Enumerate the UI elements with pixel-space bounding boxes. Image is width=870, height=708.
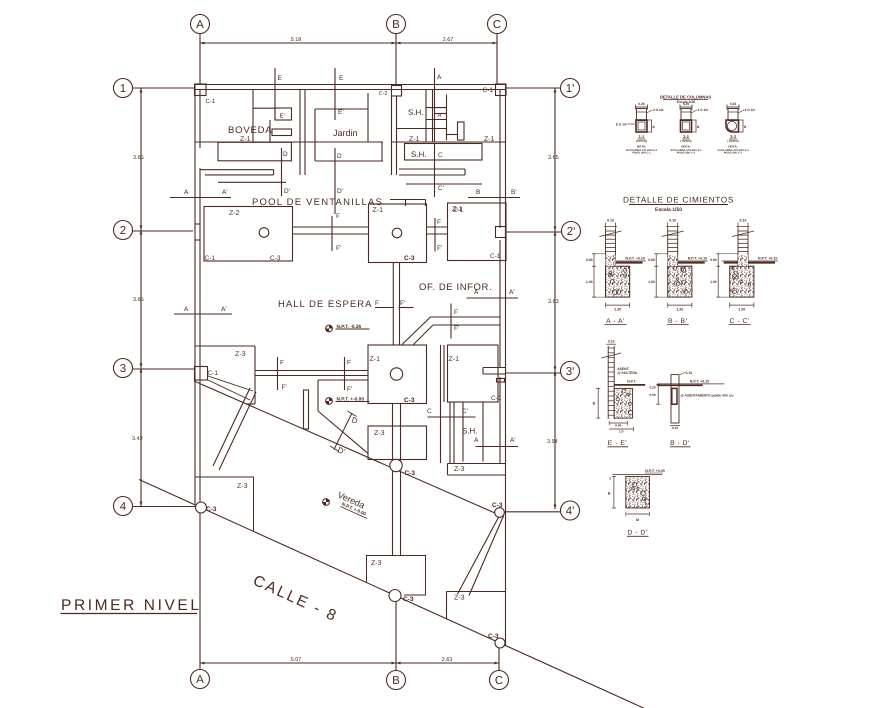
svg-text:F': F'	[282, 384, 287, 391]
svg-text:B: B	[593, 402, 596, 406]
svg-text:M: M	[636, 518, 639, 522]
svg-text:Z-1: Z-1	[409, 136, 420, 143]
svg-text:C-3: C-3	[403, 596, 414, 603]
svg-text:DETALLE DE COLUMNAS: DETALLE DE COLUMNAS	[660, 95, 712, 100]
svg-text:(TIPICO): (TIPICO)	[727, 139, 738, 143]
svg-text:@ SOLTERA: @ SOLTERA	[617, 371, 638, 375]
svg-text:C-3: C-3	[492, 502, 503, 509]
svg-text:D: D	[283, 151, 288, 158]
svg-text:A - A': A - A'	[606, 318, 625, 325]
svg-text:E: E	[339, 75, 344, 82]
svg-text:4': 4'	[566, 506, 575, 518]
svg-text:A': A'	[438, 112, 443, 119]
svg-text:C: C	[427, 408, 432, 415]
svg-text:N.P.T. +0.00: N.P.T. +0.00	[645, 469, 664, 473]
svg-text:Escala 1/50: Escala 1/50	[655, 207, 682, 213]
svg-text:C-1: C-1	[490, 253, 501, 260]
svg-text:B - B': B - B'	[668, 318, 687, 325]
svg-text:F': F'	[347, 386, 352, 393]
svg-text:2.67: 2.67	[443, 37, 454, 43]
svg-text:Z-3: Z-3	[374, 430, 385, 437]
svg-text:C-1: C-1	[491, 395, 502, 402]
svg-text:A: A	[184, 306, 189, 313]
svg-text:0.25: 0.25	[638, 102, 644, 106]
svg-text:C: C	[493, 19, 501, 31]
svg-text:F: F	[437, 219, 441, 226]
svg-text:S.H.: S.H.	[411, 150, 427, 159]
svg-text:A: A	[196, 674, 204, 686]
svg-text:3.42: 3.42	[132, 436, 143, 442]
svg-text:2: 2	[609, 477, 611, 481]
svg-text:0.15: 0.15	[686, 371, 693, 375]
svg-text:C-2: C-2	[379, 91, 388, 97]
svg-text:0.15: 0.15	[672, 426, 678, 430]
svg-text:1.00: 1.00	[586, 280, 593, 284]
svg-text:2': 2'	[567, 226, 576, 238]
svg-text:Z-1: Z-1	[484, 136, 495, 143]
svg-text:E': E'	[280, 113, 285, 120]
svg-text:@ ASENTAMIENTO pulido 400 c/u: @ ASENTAMIENTO pulido 400 c/u	[681, 394, 734, 398]
svg-text:A': A'	[221, 306, 227, 313]
svg-text:3.54: 3.54	[547, 439, 558, 445]
svg-text:Z-3: Z-3	[237, 483, 248, 490]
svg-text:S.H.: S.H.	[462, 427, 478, 436]
svg-text:OF. DE INFOR.: OF. DE INFOR.	[419, 282, 492, 293]
svg-text:Z-2: Z-2	[229, 210, 240, 217]
svg-text:F': F'	[336, 245, 341, 252]
svg-text:Z-3: Z-3	[235, 351, 246, 358]
svg-text:F: F	[347, 360, 351, 367]
svg-text:2.63: 2.63	[442, 657, 453, 663]
svg-text:D': D'	[337, 188, 343, 195]
svg-text:A: A	[437, 74, 442, 81]
svg-text:A: A	[184, 189, 189, 196]
svg-text:1.00: 1.00	[648, 280, 655, 284]
svg-text:C: C	[438, 152, 443, 159]
svg-text:0.15: 0.15	[740, 219, 747, 223]
svg-text:B: B	[392, 19, 400, 31]
svg-text:3.65: 3.65	[548, 155, 559, 161]
svg-text:3.65: 3.65	[133, 297, 144, 303]
svg-text:1.20: 1.20	[614, 308, 621, 312]
svg-text:B': B'	[511, 189, 517, 196]
svg-text:C-3: C-3	[405, 470, 416, 477]
svg-text:F': F'	[437, 245, 442, 252]
svg-text:B - D': B - D'	[670, 440, 690, 447]
svg-text:F': F'	[400, 300, 405, 307]
svg-text:0.50: 0.50	[649, 393, 655, 397]
svg-text:BOVEDA: BOVEDA	[228, 125, 272, 136]
svg-text:C-3: C-3	[270, 255, 281, 262]
svg-text:F: F	[280, 360, 284, 367]
svg-text:Z-3: Z-3	[371, 560, 382, 567]
svg-text:A': A'	[222, 189, 228, 196]
svg-text:N.P.T.: N.P.T.	[627, 380, 636, 384]
svg-text:0.40: 0.40	[615, 424, 621, 428]
svg-text:DETALLE DE CIMIENTOS: DETALLE DE CIMIENTOS	[623, 196, 734, 205]
svg-text:Z-1: Z-1	[453, 207, 464, 214]
svg-text:0.25: 0.25	[683, 102, 689, 106]
svg-text:C-1: C-1	[206, 98, 216, 105]
svg-text:F: F	[375, 300, 379, 307]
svg-text:1.20: 1.20	[676, 308, 683, 312]
svg-text:PISOS 1RO C-1: PISOS 1RO C-1	[724, 152, 743, 155]
svg-text:D: D	[337, 153, 342, 160]
svg-text:0.15: 0.15	[607, 219, 614, 223]
svg-text:F': F'	[454, 325, 459, 332]
svg-text:N.P.T. +0.15: N.P.T. +0.15	[688, 257, 707, 261]
svg-text:N.P.T. +0.15: N.P.T. +0.15	[626, 257, 645, 261]
svg-text:Z-1: Z-1	[370, 356, 381, 363]
svg-text:C-3: C-3	[206, 506, 217, 513]
svg-text:4: 4	[120, 501, 127, 513]
svg-text:E': E'	[338, 109, 344, 116]
svg-text:0.20: 0.20	[649, 386, 655, 390]
svg-text:Z-3: Z-3	[454, 466, 465, 473]
svg-text:PISOS 1RO C-1: PISOS 1RO C-1	[677, 152, 696, 155]
svg-text:S.H.: S.H.	[408, 108, 424, 117]
svg-text:C-3: C-3	[404, 255, 415, 262]
svg-text:E O 1/4: E O 1/4	[616, 123, 627, 127]
svg-text:C-3: C-3	[404, 397, 415, 404]
svg-text:3.65: 3.65	[133, 155, 144, 161]
svg-text:C-1: C-1	[483, 87, 494, 94]
svg-text:5.18: 5.18	[291, 37, 302, 43]
svg-text:E: E	[278, 75, 283, 82]
svg-text:Z-1: Z-1	[373, 207, 384, 214]
svg-text:0.60: 0.60	[710, 258, 717, 262]
svg-text:C-1: C-1	[205, 255, 216, 262]
svg-text:(TIPICO): (TIPICO)	[680, 139, 691, 143]
svg-text:Z-3: Z-3	[454, 595, 465, 602]
svg-text:E - E': E - E'	[608, 440, 627, 447]
svg-text:4 O 1/2: 4 O 1/2	[698, 108, 709, 112]
svg-text:2: 2	[120, 225, 126, 237]
svg-text:N.P.T. +0.15: N.P.T. +0.15	[690, 380, 709, 384]
svg-text:A: A	[474, 437, 479, 444]
svg-text:PRIMER NIVEL: PRIMER NIVEL	[61, 597, 202, 614]
svg-text:0.15: 0.15	[608, 340, 615, 344]
svg-text:0.60: 0.60	[648, 258, 655, 262]
svg-text:C: C	[495, 675, 503, 687]
svg-text:D - D': D - D'	[627, 530, 647, 537]
svg-text:3: 3	[120, 363, 126, 375]
svg-text:A: A	[196, 19, 204, 31]
svg-text:Z-1: Z-1	[449, 356, 460, 363]
svg-text:HALL DE ESPERA: HALL DE ESPERA	[278, 299, 372, 310]
svg-text:1.0: 1.0	[619, 430, 624, 434]
svg-text:Jardin: Jardin	[333, 128, 358, 138]
svg-text:B: B	[392, 675, 400, 687]
svg-text:A': A'	[510, 437, 516, 444]
svg-text:3': 3'	[566, 366, 575, 378]
svg-text:D': D'	[284, 188, 290, 195]
svg-text:F: F	[336, 213, 340, 220]
svg-text:C-3: C-3	[488, 633, 499, 640]
svg-text:1.20: 1.20	[738, 308, 745, 312]
svg-text:1.00: 1.00	[710, 280, 717, 284]
svg-text:1: 1	[120, 83, 126, 95]
svg-text:4 O 1/2: 4 O 1/2	[653, 108, 664, 112]
svg-text:4 O 1/2: 4 O 1/2	[745, 108, 756, 112]
svg-text:C': C'	[438, 185, 444, 192]
svg-text:F: F	[454, 309, 458, 316]
svg-text:C - C': C - C'	[730, 318, 750, 325]
svg-text:B: B	[608, 492, 611, 496]
svg-text:0.15: 0.15	[669, 219, 676, 223]
svg-text:(TIPICO): (TIPICO)	[636, 139, 647, 143]
svg-text:PISOS 1RO C-1: PISOS 1RO C-1	[632, 152, 651, 155]
svg-text:5.07: 5.07	[291, 657, 302, 663]
svg-text:0.25: 0.25	[730, 102, 736, 106]
svg-text:1': 1'	[566, 83, 575, 95]
svg-text:A': A'	[509, 289, 515, 296]
svg-text:N.P.T. +0.15: N.P.T. +0.15	[758, 257, 777, 261]
svg-text:0.60: 0.60	[586, 258, 593, 262]
svg-text:3.63: 3.63	[548, 299, 559, 305]
svg-text:B: B	[476, 189, 480, 196]
svg-text:A: A	[474, 289, 479, 296]
